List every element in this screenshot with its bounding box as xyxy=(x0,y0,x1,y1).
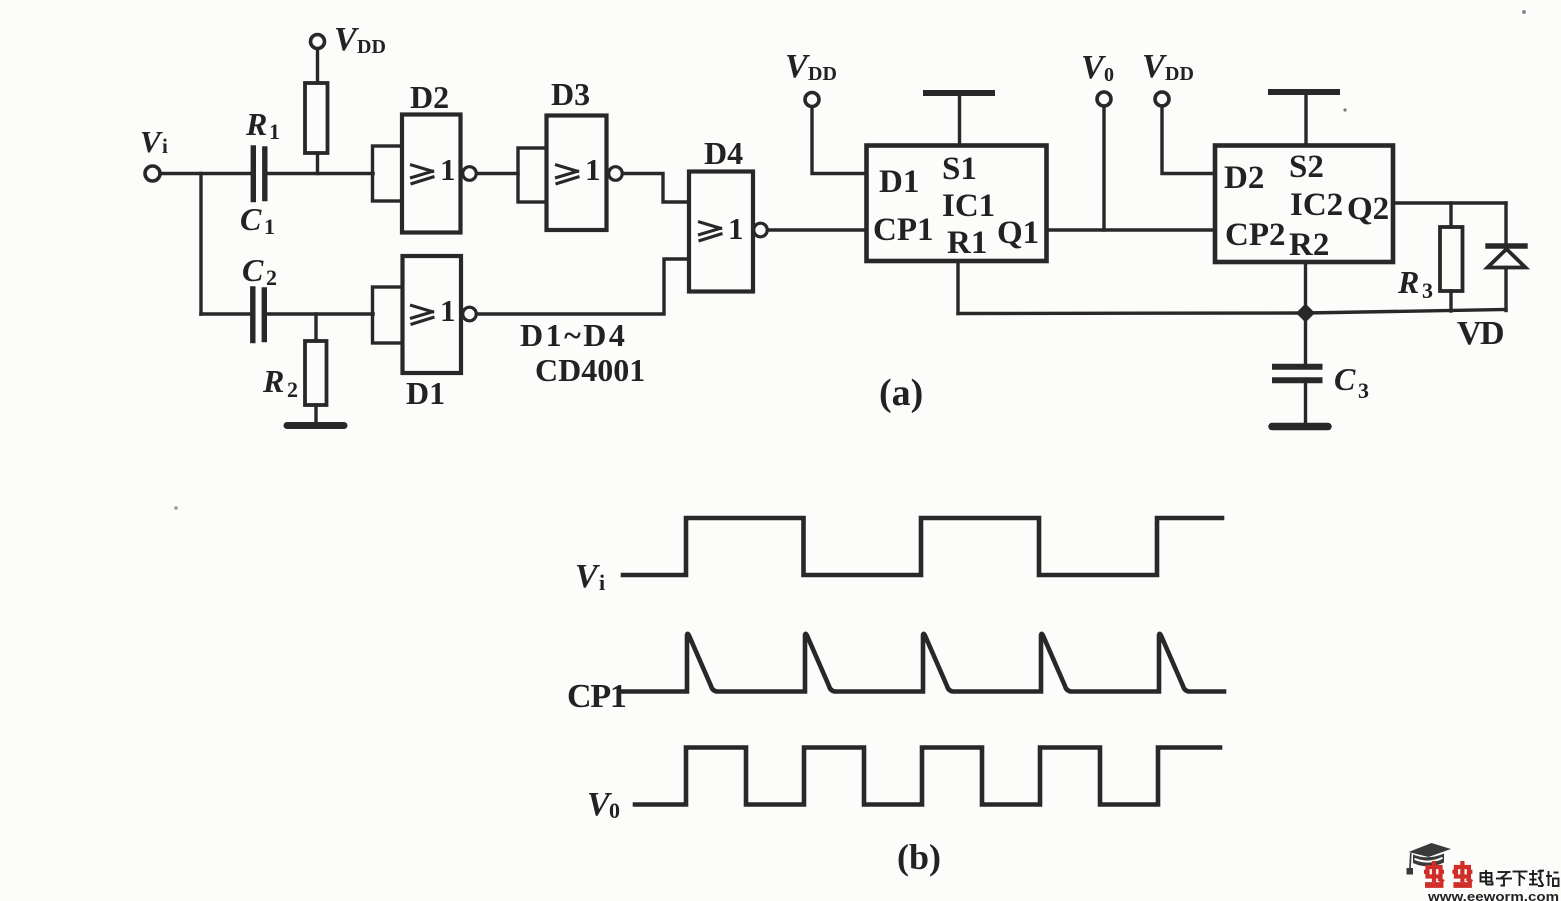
S2 rail stub xyxy=(1304,93,1307,145)
terminal VDD mid xyxy=(805,93,819,107)
svg-text:R: R xyxy=(262,363,284,399)
S1 rail stub xyxy=(958,94,961,145)
terminal V0 xyxy=(1097,92,1111,106)
wire diode bottom xyxy=(1504,268,1507,311)
svg-text:0: 0 xyxy=(1104,64,1114,86)
gate D1 input box xyxy=(373,287,403,343)
gate D4 symbol xyxy=(700,222,722,241)
svg-text:R: R xyxy=(245,106,267,142)
gate D2 input box xyxy=(373,146,403,201)
ground C3 xyxy=(1272,423,1328,431)
svg-text:C: C xyxy=(1334,361,1356,397)
svg-text:1: 1 xyxy=(269,119,280,144)
wire VDD right to IC2 D2 xyxy=(1162,106,1215,174)
label (a) xyxy=(879,372,923,414)
S2 rail bar xyxy=(1271,89,1337,95)
label C2 xyxy=(242,252,277,290)
label R2 xyxy=(262,363,298,402)
gate D1 body xyxy=(403,256,462,373)
svg-text:1: 1 xyxy=(264,214,275,239)
wire branch down to C2 xyxy=(199,174,202,315)
wire VDD to R1 xyxy=(316,49,319,83)
svg-text:V: V xyxy=(575,558,600,595)
watermark red text 虫虫 xyxy=(1424,861,1472,885)
terminal VDD right xyxy=(1155,92,1169,106)
svg-text:S2: S2 xyxy=(1289,149,1324,185)
svg-text:D2: D2 xyxy=(1224,160,1264,196)
label D1 xyxy=(406,375,445,411)
wire C1 to D2 input xyxy=(267,172,373,176)
gate D2 body xyxy=(402,115,461,233)
label C1 xyxy=(240,201,275,239)
svg-text:1: 1 xyxy=(440,293,456,328)
label VDD left xyxy=(334,21,386,58)
terminal Vi xyxy=(145,166,160,181)
wire R2 pin down to C3 xyxy=(1304,262,1307,365)
svg-text:(a): (a) xyxy=(879,372,923,414)
label Vi xyxy=(140,124,168,159)
gate D4 body xyxy=(689,172,753,292)
wire D2 to D3 xyxy=(477,172,519,175)
svg-text:D1: D1 xyxy=(406,375,445,411)
svg-text:1: 1 xyxy=(440,152,456,187)
terminal VDD left xyxy=(311,35,325,49)
wire lower branch to C2 xyxy=(201,312,251,316)
resistor R1 xyxy=(305,83,328,153)
gate D1 output bubble xyxy=(463,307,477,321)
svg-text:D1~D4: D1~D4 xyxy=(520,317,627,353)
label C3 xyxy=(1334,361,1369,403)
diode VD cathode bar xyxy=(1488,243,1525,248)
IC2 body xyxy=(1215,146,1393,263)
svg-text:S1: S1 xyxy=(942,151,977,187)
label D4 xyxy=(704,135,743,171)
S1 rail bar xyxy=(926,90,992,96)
speck mid xyxy=(1343,108,1346,111)
gate D2 symbol xyxy=(412,165,434,184)
svg-text:V: V xyxy=(1081,49,1106,86)
wire D1 to D4 lower input xyxy=(477,259,690,314)
label D1~D4 xyxy=(520,317,627,353)
svg-text:Q1: Q1 xyxy=(997,215,1039,251)
label D2 xyxy=(410,79,449,115)
svg-text:DD: DD xyxy=(357,36,386,58)
gate D3 output bubble xyxy=(609,167,623,181)
svg-text:(b): (b) xyxy=(897,837,941,877)
wire node to R2 xyxy=(314,314,317,341)
gate D1 symbol xyxy=(412,306,434,325)
svg-text:Q2: Q2 xyxy=(1347,191,1389,227)
junction node xyxy=(1296,304,1315,323)
svg-text:C: C xyxy=(240,201,262,237)
svg-text:DD: DD xyxy=(808,63,837,85)
wire Vi to C1 xyxy=(160,172,251,176)
wire R1 to node xyxy=(316,153,319,174)
label CD4001 xyxy=(535,352,645,388)
watermark black text 电子下载站 xyxy=(1481,870,1559,887)
wire R1 pin down xyxy=(956,261,959,314)
wire C2 to D1 input xyxy=(266,312,373,316)
svg-text:V: V xyxy=(1142,48,1167,85)
svg-text:CD4001: CD4001 xyxy=(535,352,645,388)
label R3 xyxy=(1397,264,1433,303)
capacitor C2 xyxy=(250,289,255,341)
svg-text:i: i xyxy=(162,134,168,158)
svg-text:CP1: CP1 xyxy=(873,212,934,248)
waveform CP1 label xyxy=(567,678,626,715)
watermark graduation cap xyxy=(1407,843,1452,875)
svg-text:D2: D2 xyxy=(410,79,449,115)
wire diode top xyxy=(1504,203,1507,244)
svg-text:3: 3 xyxy=(1358,378,1369,403)
svg-text:V: V xyxy=(334,21,359,58)
waveform CP1 trace xyxy=(623,634,1224,692)
bottom rail wire xyxy=(958,310,1506,314)
resistor R3 xyxy=(1440,227,1463,291)
capacitor C1 xyxy=(251,148,256,200)
label R1 xyxy=(245,106,280,144)
svg-text:i: i xyxy=(599,570,605,595)
IC2 pin labels xyxy=(1224,149,1389,263)
label VD xyxy=(1457,315,1503,352)
wire R3 to bottom rail xyxy=(1449,291,1452,311)
wire VDD mid to IC1 D1 xyxy=(812,107,867,174)
svg-text:V: V xyxy=(140,124,163,159)
svg-text:2: 2 xyxy=(266,265,277,290)
label VDD mid xyxy=(785,48,837,85)
svg-text:V: V xyxy=(785,48,810,85)
svg-text:C: C xyxy=(242,252,264,288)
wire D4 to IC1 CP1 xyxy=(768,228,867,231)
waveform Vi trace xyxy=(623,518,1222,575)
wire Q1 to IC2 CP2 xyxy=(1047,228,1216,231)
gate D4 output bubble xyxy=(754,223,768,237)
speck left xyxy=(174,506,178,510)
svg-text:R: R xyxy=(1397,264,1419,300)
label (b) xyxy=(897,837,941,877)
svg-text:D3: D3 xyxy=(551,76,590,112)
wire D3 to D4 upper input xyxy=(623,174,690,203)
svg-text:DD: DD xyxy=(1165,63,1194,85)
svg-text:1: 1 xyxy=(585,152,601,187)
IC1 body xyxy=(867,146,1047,262)
IC1 pin labels xyxy=(873,151,1039,261)
resistor R2 xyxy=(305,341,327,405)
svg-text:CP2: CP2 xyxy=(1225,217,1286,253)
svg-text:CP1: CP1 xyxy=(567,678,626,715)
label VDD right xyxy=(1142,48,1194,85)
capacitor C3 xyxy=(1275,364,1320,370)
wire Q2 output xyxy=(1393,201,1506,204)
svg-text:IC2: IC2 xyxy=(1290,187,1343,223)
svg-text:R2: R2 xyxy=(1289,227,1329,263)
wire R2 to ground xyxy=(314,405,317,424)
svg-text:D1: D1 xyxy=(879,164,919,200)
svg-text:3: 3 xyxy=(1422,278,1433,303)
gate D3 symbol xyxy=(557,165,579,184)
waveform V0 label xyxy=(587,786,620,823)
svg-text:2: 2 xyxy=(287,377,298,402)
svg-text:1: 1 xyxy=(728,211,744,246)
speck top right xyxy=(1522,10,1526,14)
svg-text:R1: R1 xyxy=(947,225,987,261)
gate D3 input box xyxy=(518,148,547,202)
waveform V0 trace xyxy=(635,748,1220,805)
svg-text:0: 0 xyxy=(609,798,620,823)
waveform Vi label xyxy=(575,558,605,595)
gate D3 body xyxy=(547,116,607,231)
label V0 xyxy=(1081,49,1114,86)
wire V0 tap xyxy=(1102,106,1105,230)
diode VD triangle xyxy=(1488,249,1526,268)
gate D2 output bubble xyxy=(463,167,477,181)
svg-text:www.eeworm.com: www.eeworm.com xyxy=(1427,889,1559,901)
svg-text:D4: D4 xyxy=(704,135,743,171)
label D3 xyxy=(551,76,590,112)
svg-text:VD: VD xyxy=(1457,315,1503,352)
watermark gray url xyxy=(1427,889,1559,901)
ground xyxy=(287,422,344,429)
wire to R3 xyxy=(1449,203,1452,227)
wire C3 to ground xyxy=(1304,382,1307,425)
svg-text:IC1: IC1 xyxy=(942,188,995,224)
